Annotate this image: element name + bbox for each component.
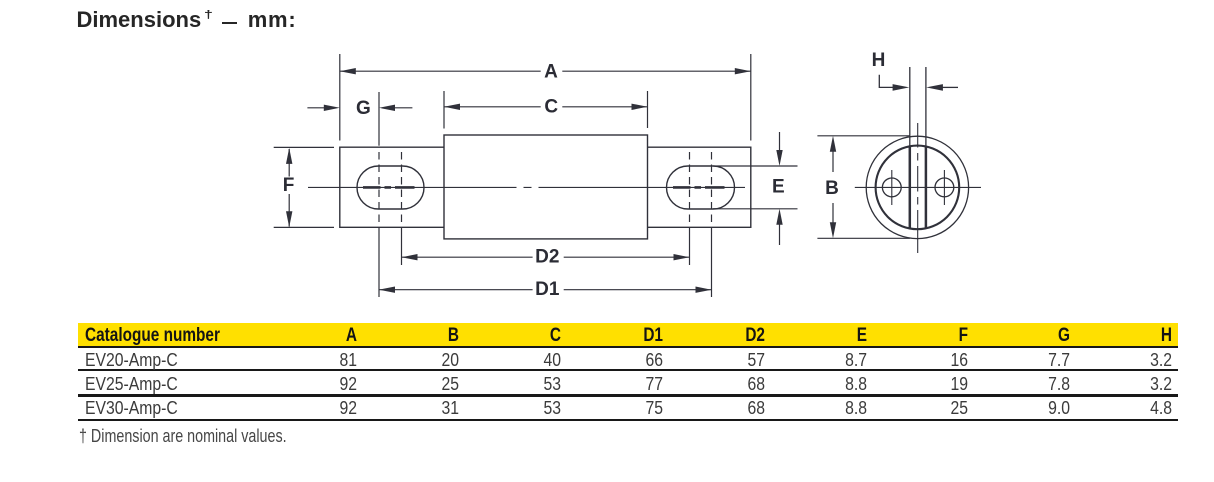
- left bolt hole: [882, 178, 901, 197]
- dim G left arrow: [307, 107, 326, 109]
- dim A arrowheads: [340, 68, 356, 74]
- table header yellow band: [78, 323, 1178, 346]
- right tab hole line D1 (x=711.5): [711, 152, 713, 225]
- data row 2: [0, 0, 1214, 1]
- dim G right arrow: [393, 107, 412, 109]
- dim E extension lines: [713, 166, 798, 209]
- svg-text:C: C: [544, 97, 558, 118]
- dim B arrowheads: [830, 136, 836, 152]
- end view tab right line: [925, 67, 927, 146]
- footnote: [79, 426, 287, 446]
- dim D1 arrowheads: [379, 287, 395, 293]
- svg-text:B: B: [825, 178, 839, 199]
- table rule under header: [78, 346, 1178, 348]
- title: [77, 9, 202, 31]
- table rule under row 2: [78, 394, 1178, 396]
- left tab hole line D1 (x=379): [378, 152, 380, 225]
- right slot bold center mark: [673, 186, 725, 189]
- end view vertical centerline: [917, 123, 919, 253]
- end view outer circle: [866, 136, 968, 238]
- left tab hole line D2 (x=401.5): [401, 152, 403, 225]
- data row 1: [0, 0, 1214, 1]
- svg-text:A: A: [544, 62, 558, 83]
- dim G extension line: [378, 92, 380, 146]
- table rule under row 1: [78, 369, 1178, 371]
- right slot: [667, 166, 735, 209]
- dim E bottom arrow: [779, 223, 781, 245]
- right tab outline: [648, 147, 751, 227]
- dim E top arrow: [779, 132, 781, 152]
- dim F extension lines: [274, 147, 334, 227]
- dim A line: [340, 70, 751, 72]
- svg-text:D1: D1: [535, 279, 560, 300]
- dim D2 arrowheads: [402, 254, 418, 260]
- end view horizontal centerline: [855, 186, 981, 188]
- dim F line: [288, 149, 290, 227]
- svg-text:E: E: [772, 177, 785, 198]
- svg-text:F: F: [283, 175, 295, 196]
- table rule under row 3: [78, 419, 1178, 421]
- dim F arrowheads: [286, 148, 292, 164]
- dim B line: [832, 150, 834, 224]
- right bolt hole: [935, 178, 954, 197]
- dim H right arrow: [942, 86, 958, 88]
- header row text: [85, 326, 220, 346]
- left slot bold center mark: [363, 186, 415, 189]
- dim H leader: [879, 75, 893, 88]
- end view inner circle: [876, 146, 960, 230]
- dim D2 line: [402, 256, 690, 258]
- dim C arrowheads: [444, 104, 460, 110]
- data row 3: [0, 0, 1214, 1]
- svg-text:G: G: [356, 98, 371, 119]
- dim C line: [444, 106, 648, 108]
- svg-text:D2: D2: [535, 246, 559, 267]
- dim B extension lines: [817, 136, 909, 239]
- right tab hole line D2 (x=689.5): [689, 152, 691, 225]
- dim A extension lines: [340, 54, 751, 141]
- left slot: [357, 166, 424, 209]
- svg-text:H: H: [872, 50, 886, 71]
- dim C extension lines: [444, 91, 648, 129]
- body outline: [444, 135, 648, 239]
- dim D1 line: [379, 289, 712, 291]
- end view tab left line: [909, 67, 911, 146]
- left tab outline: [340, 147, 444, 227]
- main horizontal centerline: [308, 186, 745, 188]
